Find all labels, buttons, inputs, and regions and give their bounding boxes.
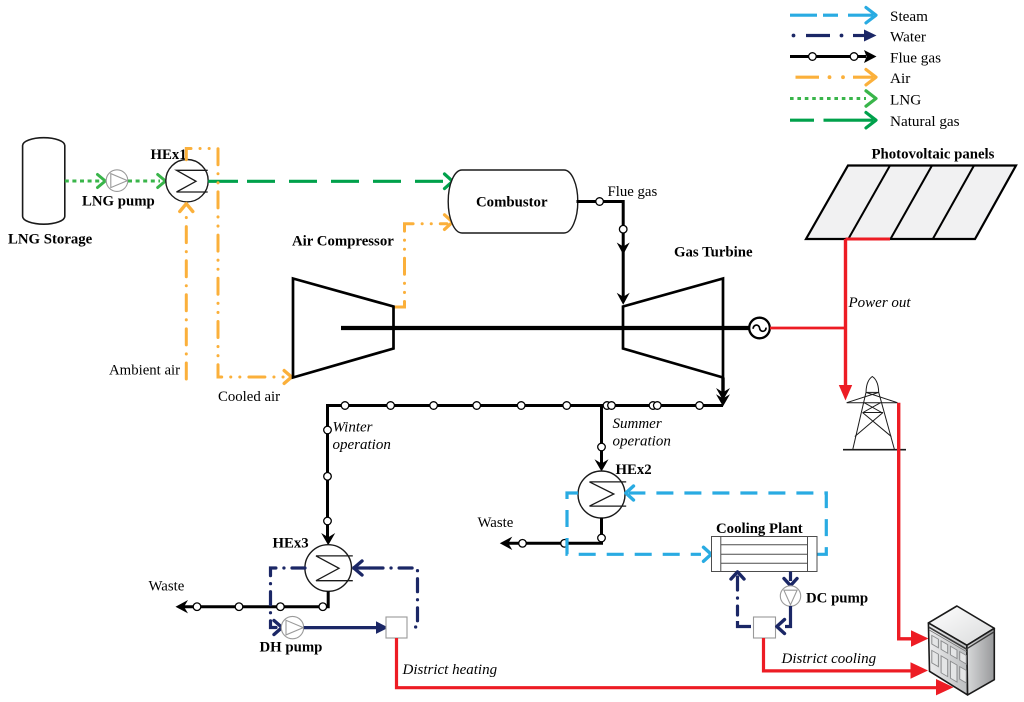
cooling plant [712,521,818,572]
generator G [749,318,770,339]
legend air line [796,70,911,88]
legend water line [792,29,926,46]
steam line HEx2 to cooling plant [567,493,711,561]
steam line cooling plant to HEx2 [626,486,827,554]
combustor [448,170,578,233]
DC water supply cooling plant to DC pump [784,572,797,586]
DC water return into cooling plant [731,572,751,627]
shaft [341,326,750,330]
winter flue branch [321,404,391,545]
LNG line pump to HEx1 [128,175,166,188]
svg-text:Water: Water [890,29,926,46]
DH junction box [386,617,407,638]
svg-text:operation: operation [333,437,391,453]
power out line from PV [839,239,912,401]
HEx3 waste line [149,579,329,614]
svg-text:Steam: Steam [890,8,928,25]
svg-text:Natural gas: Natural gas [890,113,960,130]
summer flue branch [595,404,671,472]
svg-text:Summer: Summer [613,416,662,432]
legend LNG line [790,91,921,109]
transmission tower [843,377,906,450]
svg-text:Waste: Waste [149,579,185,595]
svg-text:Photovoltaic panels: Photovoltaic panels [872,147,995,163]
compressed air line compressor to combustor [394,215,453,307]
DC junction box [754,617,776,638]
svg-text:Cooling Plant: Cooling Plant [716,521,803,537]
air compressor [292,234,394,378]
svg-text:Ambient air: Ambient air [109,363,180,379]
legend natural gas line [790,113,960,130]
LNG Storage tank [8,138,93,248]
DH pump discharge to junction box [304,621,389,634]
heat exchanger HEx2 [578,462,652,518]
svg-text:Waste: Waste [478,515,514,531]
LNG line storage to pump [65,175,106,188]
flue gas line combustor to turbine [577,184,658,305]
heat exchanger HEx3 [273,536,353,592]
DH water return line into HEx3 [353,561,418,627]
flue gas header [328,402,724,410]
svg-text:Combustor: Combustor [476,195,548,211]
district cooling red line [764,638,929,679]
svg-text:District cooling: District cooling [781,651,877,667]
flue gas line turbine to header [716,378,730,407]
svg-text:LNG pump: LNG pump [82,194,155,210]
LNG pump [82,170,155,210]
building (district consumer) [928,606,994,695]
svg-text:Air: Air [890,70,910,87]
svg-text:DH pump: DH pump [260,640,323,656]
svg-text:DC pump: DC pump [806,591,868,607]
svg-text:Flue gas: Flue gas [890,50,941,67]
svg-text:Gas Turbine: Gas Turbine [674,245,753,261]
power line generator to grid [770,327,846,330]
svg-text:operation: operation [613,434,671,450]
DC pump discharge to junction box [777,606,791,634]
legend steam line [790,8,928,26]
ambient air line into HEx1 [109,204,193,379]
legend flue gas line [790,50,941,67]
natural gas line HEx1 to combustor [208,174,452,189]
svg-text:LNG: LNG [890,92,921,109]
svg-text:LNG Storage: LNG Storage [8,232,93,248]
HEx2 waste line [478,515,606,550]
svg-text:Winter: Winter [333,420,373,436]
cooled air line HEx1 top to compressor inlet [186,149,291,405]
DH pump [260,616,323,655]
photovoltaic panels [806,147,1016,240]
svg-text:HEx1: HEx1 [151,147,187,163]
svg-text:Flue gas: Flue gas [608,184,658,200]
gas turbine [623,245,753,378]
svg-text:District heating: District heating [402,662,498,678]
DH water supply line HEx3 to pump [271,568,306,635]
heat exchanger HEx1 [151,147,209,202]
svg-text:Power out: Power out [848,295,912,311]
district heating red line [397,638,954,695]
svg-text:Air Compressor: Air Compressor [292,234,394,250]
DC pump [780,586,868,607]
svg-text:Cooled air: Cooled air [218,389,280,405]
power line tower to building [899,403,929,647]
svg-text:HEx2: HEx2 [616,462,652,478]
svg-text:HEx3: HEx3 [273,536,309,552]
